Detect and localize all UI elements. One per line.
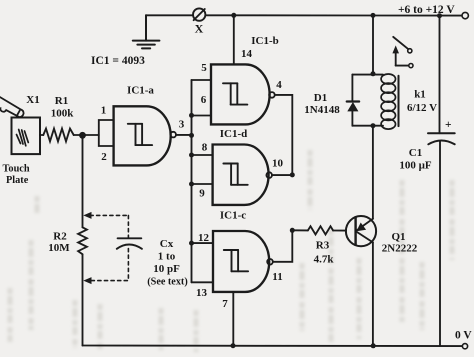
wire relay top (352, 74, 383, 76)
svg-text:2N2222: 2N2222 (382, 243, 418, 255)
wire top rail right segment (206, 14, 462, 16)
wire pin14 (233, 15, 235, 64)
arrow to node bottom (83, 277, 91, 284)
wire stub pin12 (192, 242, 214, 244)
svg-text:+6 to +12 V: +6 to +12 V (398, 4, 455, 16)
svg-text:1: 1 (101, 105, 107, 117)
wire pin7 to 0V rail (232, 292, 234, 346)
resistor R2 (78, 227, 87, 254)
svg-text:11: 11 (272, 271, 282, 283)
wire input split box IC1-a pins 1,2 (99, 120, 114, 146)
finger pointer (0, 94, 24, 118)
svg-text:4.7k: 4.7k (314, 253, 335, 265)
wire IC1-d output pin10 (272, 174, 292, 176)
wire emitter down (372, 242, 374, 345)
svg-text:100k: 100k (51, 107, 75, 119)
svg-text:IC1-a: IC1-a (127, 85, 154, 97)
wire stub pin5 (192, 79, 212, 81)
wire plate to R1 (40, 134, 43, 136)
svg-text:10: 10 (272, 157, 284, 169)
NAND gate IC1-a (114, 106, 176, 165)
svg-text:14: 14 (241, 48, 253, 60)
svg-text:Q1: Q1 (391, 231, 405, 243)
wire stub pin9 (192, 183, 213, 185)
wire C1 branch bottom (439, 142, 441, 347)
relay coil k1 (381, 74, 398, 129)
svg-text:k1: k1 (414, 89, 426, 101)
svg-text:7: 7 (222, 298, 228, 310)
diode D1 1N4148 (347, 75, 359, 126)
wire stub pin13 (192, 281, 214, 283)
svg-text:3: 3 (179, 118, 185, 130)
svg-text:12: 12 (198, 232, 210, 244)
svg-text:R3: R3 (316, 239, 330, 251)
wire stub pin8 (192, 154, 213, 156)
svg-text:100 µF: 100 µF (399, 160, 432, 172)
svg-text:X1: X1 (26, 94, 39, 106)
ground (133, 15, 160, 48)
wire collector up (372, 126, 374, 219)
wire C1 branch top (439, 16, 441, 134)
wire stub pin6 (192, 115, 212, 117)
capacitor Cx plates (117, 238, 142, 249)
arrow to node top (83, 212, 91, 219)
NAND gate IC1-c (213, 231, 273, 292)
wire 0V bottom rail (83, 345, 463, 348)
svg-text:R1: R1 (55, 95, 68, 107)
svg-text:R2: R2 (53, 230, 67, 242)
relay contact switch (392, 37, 413, 68)
svg-text:6/12 V: 6/12 V (407, 102, 437, 114)
wire R2 branch vertical (82, 135, 84, 227)
svg-text:10 pF: 10 pF (153, 263, 180, 275)
svg-text:Cx: Cx (160, 238, 174, 250)
svg-text:0 V: 0 V (455, 330, 472, 342)
resistor R1 (43, 129, 73, 142)
svg-text:+: + (445, 119, 452, 131)
svg-text:Touch: Touch (3, 163, 30, 174)
terminal 0V (462, 344, 467, 349)
node emitter rail (371, 343, 376, 348)
wire IC1-c output pin11 (273, 230, 292, 261)
resistor R3 (292, 229, 308, 231)
NAND gate IC1-b (211, 64, 275, 124)
wire relay branch from +V (372, 15, 374, 74)
svg-text:5: 5 (201, 62, 207, 74)
capacitor Cx dashed links (90, 215, 128, 280)
touch plate X1 (12, 118, 41, 155)
svg-text:Plate: Plate (6, 175, 29, 186)
capacitor C1 (428, 133, 455, 144)
node relay top (371, 71, 376, 76)
wire bus vertical (191, 80, 193, 282)
wire IC1-b output pin4 (275, 95, 293, 175)
NAND gate IC1-d (213, 145, 272, 205)
svg-text:X: X (195, 22, 204, 36)
svg-text:9: 9 (199, 187, 205, 199)
svg-text:8: 8 (202, 141, 208, 153)
node bus junctions (189, 113, 194, 246)
wire top rail left segment (146, 14, 193, 16)
node outputs join (290, 172, 295, 177)
connector X (193, 8, 205, 20)
node pin7 rail (231, 343, 236, 348)
svg-text:6: 6 (201, 94, 207, 106)
svg-text:2: 2 (101, 151, 107, 163)
svg-text:4: 4 (276, 79, 282, 91)
faint page bleed-through texture (10, 150, 452, 352)
svg-text:IC1-d: IC1-d (220, 128, 248, 140)
svg-text:13: 13 (196, 287, 208, 299)
wire IC1-a output (176, 134, 191, 136)
svg-text:1N4148: 1N4148 (304, 104, 340, 116)
wire relay bottom (352, 125, 383, 127)
svg-text:IC1-b: IC1-b (251, 35, 279, 47)
svg-text:D1: D1 (314, 92, 327, 104)
wire R1 to gate input (74, 134, 99, 136)
node junction R1/R2 (80, 133, 85, 138)
svg-text:C1: C1 (409, 147, 422, 159)
svg-text:(See text): (See text) (147, 277, 187, 288)
transistor Q1 (346, 216, 376, 246)
svg-text:IC1 = 4093: IC1 = 4093 (91, 55, 145, 67)
svg-text:1 to: 1 to (158, 250, 176, 262)
svg-text:10M: 10M (48, 242, 70, 254)
terminal +V (462, 12, 468, 18)
node relay bottom (371, 123, 376, 128)
svg-text:IC1-c: IC1-c (220, 210, 246, 222)
